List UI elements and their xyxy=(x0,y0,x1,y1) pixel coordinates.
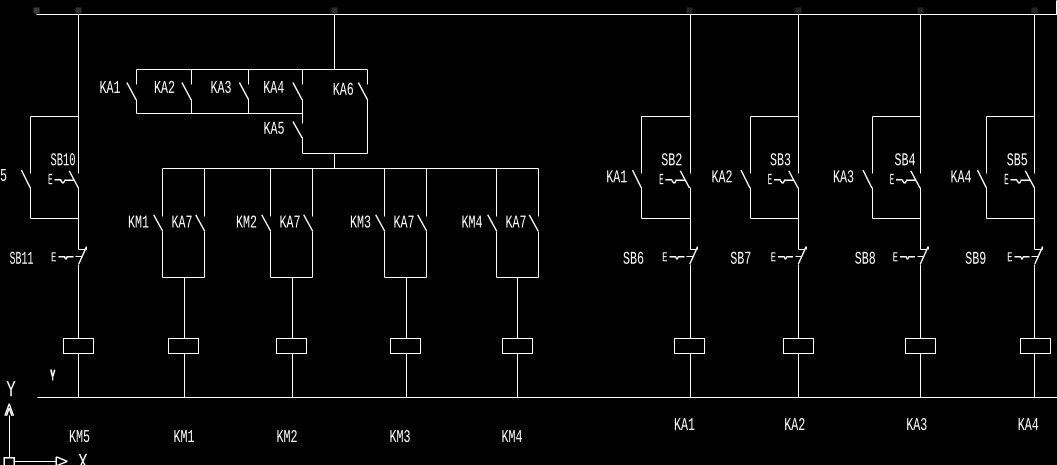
contact KA3 (NO relay contact) xyxy=(239,70,248,114)
wire below SB3 xyxy=(798,188,800,250)
svg-text:KA3: KA3 xyxy=(906,416,927,436)
svg-text:E: E xyxy=(893,251,898,266)
svg-text:KA2: KA2 xyxy=(784,416,805,436)
pushbutton SB9 (NC stop button) xyxy=(1007,247,1043,267)
wire tap to coil KM2 xyxy=(292,278,294,339)
wire parallel box top (KA1 branch) xyxy=(642,116,691,118)
svg-text:KA1: KA1 xyxy=(606,168,627,188)
wire SB7 to coil KA2 xyxy=(798,265,800,339)
svg-text:SB5: SB5 xyxy=(1007,151,1028,171)
pushbutton SB2 (NO start button) xyxy=(659,171,690,189)
label KM2 (coil designator) xyxy=(276,428,297,448)
label KM5 (clipped at left edge) xyxy=(0,167,7,187)
label KA7 xyxy=(171,214,192,234)
svg-text:KM4: KM4 xyxy=(461,214,482,234)
contact KA3 (NO relay self-holding contact) xyxy=(863,117,873,219)
svg-text:SB10: SB10 xyxy=(50,151,75,171)
contact KM1 (NO contactor aux contact) xyxy=(154,169,163,278)
svg-text:SB9: SB9 xyxy=(965,250,986,270)
svg-text:Y: Y xyxy=(6,377,16,403)
label KA5 xyxy=(263,120,284,140)
wire top-right edge stub xyxy=(1056,1,1057,15)
label KA7 xyxy=(279,214,300,234)
label KA1 xyxy=(606,168,627,188)
wire KM4/KA7 bottom rail xyxy=(497,277,539,279)
marker V (polarity/vertex mark) xyxy=(51,370,55,381)
svg-text:E: E xyxy=(768,171,773,189)
svg-text:SB11: SB11 xyxy=(9,250,33,270)
svg-text:SB6: SB6 xyxy=(623,250,644,270)
svg-text:X: X xyxy=(78,450,88,465)
svg-text:KM5: KM5 xyxy=(69,428,90,448)
svg-text:KM1: KM1 xyxy=(173,428,194,448)
wire coil KM5 to bottom bus xyxy=(78,354,80,398)
svg-text:SB4: SB4 xyxy=(894,151,915,171)
wire SB6 to coil KA1 xyxy=(690,265,692,339)
label SB11 xyxy=(9,250,33,270)
svg-text:KA4: KA4 xyxy=(1018,416,1039,436)
contact KA1 (NO relay contact) xyxy=(127,70,137,114)
contact KA4 (NO relay contact) xyxy=(293,70,303,114)
wire KM5 branch from top bus xyxy=(78,15,80,174)
svg-text:KM4: KM4 xyxy=(501,428,522,448)
wire bottom supply bus xyxy=(38,397,1057,399)
coil KM2 (contactor coil) xyxy=(277,339,307,354)
wire parallel box bottom (KA2 branch) xyxy=(751,218,799,220)
label Y axis xyxy=(6,377,16,403)
label KM2 xyxy=(236,214,257,234)
svg-text:KM3: KM3 xyxy=(389,428,410,448)
label SB5 xyxy=(1007,151,1028,171)
grip ghost marks (faint) xyxy=(34,8,1038,14)
svg-text:KM2: KM2 xyxy=(236,214,257,234)
svg-text:KA5: KA5 xyxy=(263,120,284,140)
label KM5 (coil designator) xyxy=(69,428,90,448)
label KA4 (coil designator) xyxy=(1018,416,1039,436)
contact KM3 (NO contactor aux contact) xyxy=(376,169,385,278)
wire parallel box top (KA2 branch) xyxy=(751,116,799,118)
svg-text:KM5: KM5 xyxy=(0,167,7,187)
label KM4 xyxy=(461,214,482,234)
contact KA6 (NO relay contact) xyxy=(358,70,367,154)
label SB3 xyxy=(770,151,791,171)
label KA4 xyxy=(263,79,284,99)
wire parallel box bottom (KA1 branch) xyxy=(642,218,691,220)
contact KA7 (NO relay contact, parallel with KM1) xyxy=(196,169,205,278)
svg-text:E: E xyxy=(51,251,56,266)
label KA1 (coil designator) xyxy=(674,416,695,436)
wire KA bank top rail xyxy=(137,69,368,71)
pushbutton SB7 (NC stop button) xyxy=(771,247,807,267)
svg-text:E: E xyxy=(771,251,776,266)
wire coil KA4 to bottom bus xyxy=(1034,354,1036,398)
svg-text:KM3: KM3 xyxy=(350,214,371,234)
label KA1 xyxy=(99,79,120,99)
wire tap from junction to KM rail xyxy=(334,154,336,169)
wire coil KA2 to bottom bus xyxy=(798,354,800,398)
wire KA2 branch from top bus xyxy=(798,15,800,174)
wire parallel box top (KA4 branch) xyxy=(987,116,1035,118)
coil KA3 (relay coil) xyxy=(906,339,936,354)
Y axis arrow xyxy=(5,404,14,458)
label KM3 (coil designator) xyxy=(389,428,410,448)
svg-text:KA6: KA6 xyxy=(333,81,354,101)
pushbutton SB5 (NO start button) xyxy=(1004,171,1035,189)
wire KA5/KA6 junction bar xyxy=(303,153,368,155)
label KA7 xyxy=(393,214,414,234)
label X axis xyxy=(78,450,88,465)
wire SB9 to coil KA4 xyxy=(1034,265,1036,339)
svg-text:SB8: SB8 xyxy=(855,250,876,270)
label KA6 xyxy=(333,81,354,101)
label KM4 (coil designator) xyxy=(501,428,522,448)
svg-text:SB3: SB3 xyxy=(770,151,791,171)
label SB9 xyxy=(965,250,986,270)
wire KA3 branch from top bus xyxy=(920,15,922,174)
svg-text:E: E xyxy=(48,171,53,189)
svg-text:KA7: KA7 xyxy=(171,214,192,234)
contact KA7 (NO relay contact, parallel with KM4) xyxy=(529,169,538,278)
svg-text:E: E xyxy=(1007,251,1012,266)
contact KM5 (NO contactor aux contact) xyxy=(21,117,30,219)
wire SB8 to coil KA3 xyxy=(920,265,922,339)
wire parallel box top (KA3 branch) xyxy=(873,116,921,118)
svg-text:KM2: KM2 xyxy=(276,428,297,448)
label SB4 xyxy=(894,151,915,171)
wire KM2/KA7 bottom rail xyxy=(271,277,313,279)
UCS origin box xyxy=(4,458,14,465)
svg-text:KA7: KA7 xyxy=(279,214,300,234)
label KM1 xyxy=(128,214,149,234)
svg-text:KA4: KA4 xyxy=(263,79,284,99)
contact KA1 (NO relay self-holding contact) xyxy=(633,117,642,219)
svg-text:KA3: KA3 xyxy=(210,79,231,99)
wire tap to coil KM1 xyxy=(184,278,186,339)
wire parallel box bottom (KA3 branch) xyxy=(873,218,921,220)
wire KM1/KA7 bottom rail xyxy=(163,277,205,279)
label KA3 xyxy=(833,168,854,188)
svg-text:E: E xyxy=(890,171,895,189)
wire KM bank top rail xyxy=(163,168,539,170)
wire coil KA1 to bottom bus xyxy=(690,354,692,398)
pushbutton SB8 (NC stop button) xyxy=(893,247,929,267)
label SB7 xyxy=(730,250,751,270)
contact KA2 (NO relay self-holding contact) xyxy=(741,117,751,219)
label SB2 xyxy=(661,151,682,171)
wire coil KM1 to bottom bus xyxy=(184,354,186,398)
wire coil KM2 to bottom bus xyxy=(292,354,294,398)
label KM1 (coil designator) xyxy=(173,428,194,448)
coil KM4 (contactor coil) xyxy=(503,339,533,354)
svg-text:KM1: KM1 xyxy=(128,214,149,234)
pushbutton SB3 (NO start button) xyxy=(768,171,799,189)
svg-text:KA2: KA2 xyxy=(711,168,732,188)
label KA7 xyxy=(505,214,526,234)
pushbutton SB10 (NO start button) xyxy=(48,171,79,189)
contact KA7 (NO relay contact, parallel with KM3) xyxy=(418,169,427,278)
wire coil KM3 to bottom bus xyxy=(406,354,408,398)
coil KA1 (relay coil) xyxy=(675,339,705,354)
label KA3 (coil designator) xyxy=(906,416,927,436)
svg-text:KA7: KA7 xyxy=(393,214,414,234)
label SB8 xyxy=(855,250,876,270)
svg-text:E: E xyxy=(662,251,667,266)
label KA3 xyxy=(210,79,231,99)
wire SB11 to coil KM5 xyxy=(78,265,80,339)
wire parallel box bottom (KA4 branch) xyxy=(987,218,1035,220)
wire parallel box top (KM5 branch) xyxy=(31,116,79,118)
label SB6 xyxy=(623,250,644,270)
label SB10 xyxy=(50,151,75,171)
pushbutton SB6 (NC stop button) xyxy=(662,247,698,267)
contact KM4 (NO contactor aux contact) xyxy=(488,169,497,278)
wire feed to KA contact bank xyxy=(334,15,336,70)
label KA2 xyxy=(711,168,732,188)
label KA2 xyxy=(154,79,175,99)
svg-text:E: E xyxy=(1004,171,1009,189)
svg-text:E: E xyxy=(659,171,664,189)
svg-text:KA2: KA2 xyxy=(154,79,175,99)
svg-text:KA1: KA1 xyxy=(674,416,695,436)
wire parallel box bottom (KM5 branch) xyxy=(31,218,79,220)
coil KA4 (relay coil) xyxy=(1021,339,1051,354)
contact KA4 (NO relay self-holding contact) xyxy=(978,117,987,219)
coil KM3 (contactor coil) xyxy=(391,339,421,354)
pushbutton SB4 (NO start button) xyxy=(890,171,921,189)
svg-text:SB2: SB2 xyxy=(661,151,682,171)
contact KA5 (NO relay contact) xyxy=(293,114,303,154)
contact KA2 (NO relay contact) xyxy=(182,70,192,114)
wire below SB10 xyxy=(78,188,80,250)
wire below SB4 xyxy=(920,188,922,250)
wire below SB2 xyxy=(690,188,692,250)
label KM3 xyxy=(350,214,371,234)
contact KM2 (NO contactor aux contact) xyxy=(262,169,271,278)
wire KM3/KA7 bottom rail xyxy=(385,277,427,279)
label KA4 xyxy=(950,168,971,188)
svg-text:SB7: SB7 xyxy=(730,250,751,270)
svg-text:KA4: KA4 xyxy=(950,168,971,188)
wire top supply bus xyxy=(37,14,1057,16)
wire KA4 branch from top bus xyxy=(1034,15,1036,174)
wire coil KA3 to bottom bus xyxy=(920,354,922,398)
svg-text:KA7: KA7 xyxy=(505,214,526,234)
contact KA7 (NO relay contact, parallel with KM2) xyxy=(304,169,313,278)
wire tap to coil KM4 xyxy=(517,278,519,339)
X axis arrow xyxy=(15,457,68,465)
svg-text:KA1: KA1 xyxy=(99,79,120,99)
pushbutton SB11 (NC stop button) xyxy=(51,247,87,267)
wire tap to coil KM3 xyxy=(406,278,408,339)
coil KA2 (relay coil) xyxy=(784,339,814,354)
svg-text:KA3: KA3 xyxy=(833,168,854,188)
wire KA1 branch from top bus xyxy=(690,15,692,174)
coil KM1 (contactor coil) xyxy=(169,339,199,354)
wire coil KM4 to bottom bus xyxy=(517,354,519,398)
coil KM5 (contactor coil) xyxy=(64,339,94,354)
wire below SB5 xyxy=(1034,188,1036,250)
wire KA bank bottom rail xyxy=(137,113,303,115)
label KA2 (coil designator) xyxy=(784,416,805,436)
